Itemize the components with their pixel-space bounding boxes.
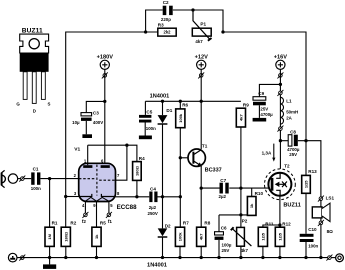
label T1 [202, 143, 208, 148]
svg-text:R5: R5 [100, 221, 106, 226]
label C1 [33, 166, 39, 171]
svg-text:f2: f2 [82, 219, 87, 224]
svg-text:220p: 220p [161, 17, 171, 22]
svg-text:100n: 100n [31, 186, 41, 191]
svg-text:R4: R4 [139, 156, 145, 161]
pin number 8 [117, 191, 120, 196]
label D2 [165, 224, 171, 229]
connector slash f2 [82, 212, 88, 218]
wire C5 to ground bar [144, 123, 146, 136]
wire R13 to C10 [305, 193, 307, 234]
svg-text:4k7: 4k7 [238, 113, 243, 120]
node rail R6 [179, 100, 182, 103]
tube heater [85, 197, 109, 201]
svg-text:10µ: 10µ [72, 120, 80, 125]
svg-text:1Ω5: 1Ω5 [260, 232, 265, 240]
svg-text:25V: 25V [222, 248, 230, 253]
ground bar under C9 [253, 118, 267, 122]
svg-text:S: S [48, 102, 51, 107]
input terminal circle [8, 174, 17, 183]
pin number 4 [82, 203, 85, 208]
node P1 wiper tap [191, 8, 194, 11]
svg-text:1N4001: 1N4001 [147, 263, 167, 269]
value 25V C6 [222, 248, 230, 253]
svg-text:D: D [33, 109, 36, 114]
label R5 [100, 221, 106, 226]
node C6 link crossing [239, 213, 242, 216]
package leg D [32, 72, 36, 104]
wire C8 to speaker line [298, 141, 321, 199]
svg-text:R3: R3 [158, 23, 164, 28]
chassis ground bar [43, 258, 56, 269]
node rail +12V [200, 100, 203, 103]
wire C6 bottom [218, 240, 220, 258]
label C3 [93, 111, 99, 116]
value 100n C10 [308, 244, 318, 249]
wire R1 lead [49, 179, 51, 228]
node C9 tap [279, 83, 282, 86]
wire pin5 lead [108, 201, 110, 213]
value 2µ2 C4 [149, 205, 157, 210]
label R6 [182, 103, 188, 108]
connector slash LS1 top [318, 196, 324, 202]
label P1 [200, 21, 206, 26]
value 4k7 P1 [195, 39, 203, 44]
transistor T1 [188, 149, 205, 167]
label C4 [150, 186, 156, 191]
pin number 2 [74, 173, 77, 178]
svg-text:L1: L1 [286, 99, 292, 104]
label LS1 [326, 196, 335, 201]
svg-text:2A: 2A [286, 116, 292, 121]
svg-text:R12: R12 [282, 222, 291, 227]
node D-chain crossing [161, 195, 164, 198]
wire C5 riser [144, 101, 146, 115]
label BC337 [205, 168, 222, 174]
wire pin8 line [115, 196, 149, 198]
resistor R2 [61, 227, 70, 246]
wire pin1 anode riser [87, 145, 89, 165]
svg-text:C8: C8 [290, 129, 296, 134]
label P2 [242, 219, 248, 224]
wire R11 bottom [262, 246, 264, 257]
node gate/R9 crossing [239, 186, 242, 189]
wire C3 branch [86, 101, 105, 112]
connector slash +16V [277, 72, 283, 78]
node rail D1 [161, 100, 164, 103]
label C7 [220, 178, 226, 183]
label f2 [82, 219, 87, 224]
wire R11 branch [263, 225, 280, 227]
label C6 [221, 226, 227, 231]
label L1 [286, 99, 292, 104]
svg-text:25V: 25V [289, 152, 297, 157]
trimmer P2 [231, 227, 252, 246]
wire C1 to grid pin2 [40, 178, 79, 180]
pin number 5 [110, 203, 113, 208]
svg-text:2k2: 2k2 [164, 30, 172, 35]
node cathode line end [179, 195, 182, 198]
svg-text:BC337: BC337 [205, 168, 222, 174]
node P1 right junction [221, 30, 224, 33]
value 400V [93, 120, 103, 125]
label R3 [158, 23, 164, 28]
tube anode plate left [83, 165, 92, 168]
pin number 9 [93, 203, 96, 208]
node source/R11 junction [278, 223, 281, 226]
svg-text:C2: C2 [163, 0, 169, 5]
wire ground bus [17, 257, 328, 259]
svg-text:T1: T1 [202, 143, 208, 148]
svg-text:1M: 1M [47, 233, 52, 239]
value 2A [286, 116, 292, 121]
wire R7 bottom [179, 246, 181, 257]
label 1N4001 top [150, 93, 170, 99]
resistor R9 [236, 108, 245, 127]
node bus D2 [161, 256, 164, 259]
tube cathode right [101, 194, 115, 197]
svg-text:R2: R2 [70, 221, 76, 226]
supply +180V [97, 55, 114, 70]
tube anode plate right [101, 165, 110, 168]
value 4700µ C9 [260, 112, 273, 117]
value 4k7 P2 [241, 248, 249, 253]
connector slash f1 [106, 212, 112, 218]
label C5 [146, 109, 152, 114]
wire P2 bottom [240, 246, 242, 257]
svg-text:1k: 1k [249, 203, 254, 208]
node bus C10 [304, 256, 307, 259]
svg-text:P2: P2 [242, 219, 248, 224]
wire R2 bottom [65, 246, 67, 257]
connector slash L1 bottom [277, 126, 283, 132]
value 50mH [286, 110, 298, 115]
diode D1 [158, 101, 168, 197]
label R2 [70, 221, 76, 226]
tube V1 envelope [79, 163, 116, 201]
svg-text:P1: P1 [200, 21, 206, 26]
wire LS1 bottom lead [320, 218, 322, 258]
svg-text:100k: 100k [178, 113, 183, 123]
resistor R11 [258, 227, 267, 246]
resistor R10 [247, 197, 256, 216]
wire T1 base [180, 157, 192, 159]
node feedback/C8 crossing [304, 139, 307, 142]
node bus R1 [48, 256, 51, 259]
label R10 [255, 191, 264, 196]
svg-text:LS1: LS1 [326, 196, 335, 201]
node bus LS1 [319, 256, 322, 259]
value 4700µ C8 [287, 147, 300, 152]
value 100n C1 [31, 186, 41, 191]
svg-text:100n: 100n [308, 244, 318, 249]
label C2 [163, 0, 169, 5]
resistor R13 [302, 175, 311, 193]
svg-text:D1: D1 [166, 108, 172, 113]
wire R10 top lead [251, 188, 253, 196]
pin number 1 [84, 159, 87, 164]
wire C3 to ground bar [85, 121, 87, 134]
wire P1 to feedback line [223, 32, 306, 175]
diode D2 [158, 197, 168, 258]
node R1 tap [48, 177, 51, 180]
svg-text:4k7: 4k7 [195, 39, 203, 44]
capacitor C9 [253, 97, 266, 106]
capacitor C3 [81, 113, 92, 121]
value 220p [161, 17, 171, 22]
wire R1 bottom [49, 246, 51, 257]
wire C2 right to P1 right [173, 10, 223, 32]
current label 1,3A [262, 144, 276, 162]
node bus R7 [178, 256, 181, 259]
inductor L1 [280, 97, 283, 124]
svg-text:180Ω: 180Ω [134, 165, 139, 176]
wire R8 bottom [200, 246, 202, 257]
label V1 [74, 147, 80, 153]
resistor R7 [175, 227, 184, 246]
tube grid right dashed [99, 179, 115, 181]
label C8 [290, 129, 296, 134]
value 25V C8 [289, 152, 297, 157]
capacitor C10 [300, 234, 314, 242]
label ECC88 [117, 204, 138, 211]
connector slash +180V [102, 72, 108, 78]
svg-text:C6: C6 [221, 226, 227, 231]
input phono plug symbol [1, 170, 5, 187]
value 10µ [72, 120, 80, 125]
tube grid left dashed [79, 178, 95, 180]
svg-text:100k: 100k [178, 232, 183, 242]
node C2/R3 junction [144, 30, 147, 33]
svg-text:1Ω5: 1Ω5 [277, 232, 282, 240]
node C8 tap [279, 139, 282, 142]
capacitor C1 [31, 172, 40, 184]
svg-text:R6: R6 [182, 103, 188, 108]
value 100n C5 [146, 126, 156, 131]
svg-text:R10: R10 [255, 191, 264, 196]
value 100µ C6 [222, 243, 232, 248]
connector slash input [19, 176, 25, 182]
wire R3 line to cathode [66, 32, 158, 197]
supply +16V [274, 55, 287, 70]
svg-text:400V: 400V [93, 120, 103, 125]
node C3 tap [103, 100, 106, 103]
resistor R12 [275, 227, 284, 246]
svg-text:4k7: 4k7 [241, 248, 249, 253]
transistor package TO-220 tab [20, 34, 49, 53]
node bus R5 [95, 256, 98, 259]
svg-text:V1: V1 [74, 147, 80, 153]
capacitor C6 [215, 232, 224, 240]
connector slash L1 top [277, 90, 283, 96]
resistor R4 [133, 162, 142, 181]
transistor package body [20, 53, 49, 72]
wire T2 source [279, 196, 281, 227]
value 25V C9 [260, 107, 268, 112]
wire R6-R7 line [179, 128, 181, 228]
svg-text:50mH: 50mH [286, 110, 298, 115]
svg-text:R1: R1 [52, 221, 58, 226]
svg-text:T2: T2 [284, 163, 290, 168]
tube center divider [96, 165, 98, 196]
svg-text:2µ2: 2µ2 [219, 194, 227, 199]
wire T1 emitter to R8 [200, 166, 202, 227]
wire R9 to P2 [240, 127, 242, 227]
wire R5 bottom [96, 246, 98, 257]
svg-text:4k7: 4k7 [199, 233, 204, 240]
wire C6 riser [218, 215, 220, 232]
svg-text:250V: 250V [148, 211, 158, 216]
wire +16V down to T2 drain [279, 69, 281, 168]
pin number 3 [74, 191, 77, 196]
svg-text:C10: C10 [308, 227, 317, 232]
label R4 [139, 156, 145, 161]
wire C8 branch [280, 140, 288, 142]
resistor R1 [45, 227, 54, 246]
ground bar under C5 [139, 136, 152, 140]
node gate line start [200, 186, 203, 189]
wire C9 to ground bar [258, 105, 260, 118]
wire C9 branch [259, 84, 280, 96]
svg-text:C1: C1 [33, 166, 39, 171]
svg-text:BUZ11: BUZ11 [22, 27, 43, 34]
svg-text:C7: C7 [220, 178, 226, 183]
value 250V C4 [148, 211, 158, 216]
package leg G [23, 72, 27, 100]
node bus R11 [261, 256, 264, 259]
pin number 6 [101, 159, 104, 164]
capacitor C2 [163, 6, 173, 15]
capacitor C4 [149, 192, 157, 203]
wire C4 right [158, 196, 181, 198]
wire R4 bottom [136, 180, 138, 196]
ground terminal circle [8, 253, 17, 262]
svg-text:180Ω: 180Ω [63, 231, 68, 242]
wire R2 lead [65, 197, 67, 228]
svg-text:C3: C3 [93, 111, 99, 116]
svg-text:100n: 100n [146, 126, 156, 131]
node bus R8 [200, 256, 203, 259]
connector slash +12V [198, 72, 204, 78]
wire +180V down to tube anode pin6 [104, 69, 106, 165]
value 8Ω [327, 229, 334, 234]
value 2µ2 C7 [219, 194, 227, 199]
wire R12 bottom [279, 246, 281, 257]
label f1 [108, 219, 113, 224]
resistor R5 [92, 227, 101, 246]
label R12 [282, 222, 291, 227]
node bus R12 [278, 256, 281, 259]
svg-text:R8: R8 [204, 221, 210, 226]
loudspeaker LS1 [312, 203, 330, 221]
label R1 [52, 221, 58, 226]
value 2k2 in R3 [164, 30, 172, 35]
wire gate line left [201, 187, 219, 189]
svg-text:4700µ: 4700µ [260, 112, 273, 117]
svg-text:C9: C9 [258, 91, 264, 96]
svg-text:G: G [16, 102, 20, 107]
transistor T2 [265, 169, 296, 200]
package pin label S [48, 102, 51, 107]
node bus P2 [239, 256, 242, 259]
wire LS1 top lead [320, 201, 322, 207]
svg-text:C4: C4 [150, 186, 156, 191]
wire pin4 lead [84, 201, 86, 213]
package pin label G [16, 102, 20, 107]
wire pin7 riser [115, 145, 127, 180]
package leg S [41, 72, 45, 100]
svg-text:R7: R7 [183, 221, 189, 226]
svg-text:1N4001: 1N4001 [150, 93, 170, 99]
tube cathode left [79, 194, 92, 197]
svg-text:f1: f1 [108, 219, 113, 224]
capacitor C8 [288, 135, 298, 146]
package pin label D [33, 109, 36, 114]
node bus C6 [217, 256, 220, 259]
svg-text:BUZ11: BUZ11 [283, 203, 300, 209]
wire anode/grid link [88, 145, 137, 161]
wire C6-R10 link [219, 214, 252, 216]
wire cathode pin3 to feedback [66, 196, 79, 198]
label T2 [284, 163, 290, 168]
svg-text:ECC88: ECC88 [117, 204, 138, 211]
node cathode junction [64, 195, 67, 198]
wire input to C1 [18, 178, 32, 180]
svg-text:1k: 1k [94, 234, 99, 239]
node bus R2 [64, 256, 67, 259]
svg-text:1Ω5: 1Ω5 [304, 180, 309, 188]
svg-text:R9: R9 [243, 103, 249, 108]
resistor R6 [176, 109, 185, 128]
label 1N4001 bottom [147, 263, 167, 269]
label D1 [166, 108, 172, 113]
connector slash ground input [19, 255, 25, 261]
label R7 [183, 221, 189, 226]
label R9 [243, 103, 249, 108]
ground bar under C3 [82, 134, 92, 138]
capacitor C7 [220, 183, 229, 194]
label R8 [204, 221, 210, 226]
supply +12V [195, 55, 208, 70]
svg-text:R13: R13 [308, 169, 317, 174]
label C9 [258, 91, 264, 96]
wire +12V down through rail to T1 collector [200, 69, 202, 149]
capacitor C5 [139, 115, 151, 123]
svg-text:2µ2: 2µ2 [149, 205, 157, 210]
label BUZ11 schematic [283, 203, 300, 209]
potentiometer P1 [192, 10, 211, 41]
label R11 [265, 222, 274, 227]
BUZ11 package label [22, 27, 43, 34]
resistor R8 [197, 227, 206, 246]
node pin7 riser junction [125, 144, 128, 147]
node T1 base tap [179, 156, 182, 159]
svg-text:8Ω: 8Ω [327, 229, 334, 234]
wire +12V rail [145, 100, 241, 102]
label C10 [308, 227, 317, 232]
wire R6 top lead [179, 101, 181, 109]
svg-text:D2: D2 [165, 224, 171, 229]
svg-text:1,3A: 1,3A [262, 150, 272, 155]
svg-text:C5: C5 [146, 109, 152, 114]
resistor R3 [158, 28, 176, 36]
svg-text:R11: R11 [265, 222, 274, 227]
label R13 [308, 169, 317, 174]
wire pin9 to R5 [96, 201, 98, 227]
wire C2 left branch [146, 10, 163, 32]
wire gate line right [229, 187, 271, 189]
connector slash output 0 [326, 255, 332, 261]
